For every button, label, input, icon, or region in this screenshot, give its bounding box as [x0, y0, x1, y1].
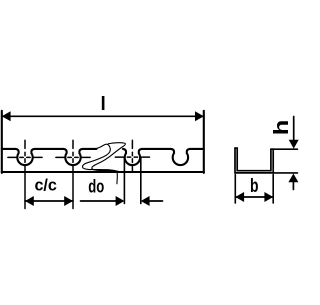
dimension line h lower part — [292, 181, 294, 190]
dimension line do right part — [150, 200, 163, 202]
dimension line do left part — [81, 200, 117, 202]
break line squiggle left stroke — [83, 144, 121, 172]
keyhole slot 3 — [123, 149, 142, 165]
centerline slot 3 horizontal dashes — [115, 156, 149, 158]
svg-text:c/c: c/c — [34, 176, 57, 194]
arrowhead do right (points left) — [141, 196, 150, 206]
label do — [88, 176, 104, 197]
extension line b left — [234, 175, 236, 204]
arrowhead h up — [288, 174, 298, 183]
arrowhead h down — [289, 140, 299, 149]
extension line h top — [271, 148, 298, 150]
label l — [101, 94, 106, 115]
arrowhead do left (points right) — [116, 196, 125, 206]
arrowhead c/c left — [25, 196, 34, 206]
arrowhead c/c right — [64, 196, 73, 206]
svg-text:h: h — [270, 120, 293, 136]
dimension line h upper part — [293, 117, 295, 142]
dimension line c/c — [25, 200, 73, 202]
extension line do right (hole tangent) — [140, 157, 142, 203]
break line squiggle right stroke — [92, 143, 126, 184]
centerline slot 2 horizontal dashes — [56, 156, 90, 158]
label b — [250, 175, 259, 197]
arrowhead b left — [235, 192, 244, 202]
label h (rotated) — [270, 120, 293, 136]
svg-text:b: b — [250, 175, 259, 197]
arrowhead l left — [2, 111, 11, 121]
centerline slot 2 vertical (extends down as c/c extension) — [72, 140, 74, 208]
section view U-channel outline — [235, 148, 273, 173]
dimension line b — [235, 196, 273, 198]
centerline slot 1 vertical (extends down as c/c extension) — [24, 140, 26, 208]
bar left edge / extension line for l — [1, 111, 3, 173]
bar right edge / extension line for l — [203, 111, 205, 173]
arrowhead l right — [195, 111, 204, 121]
centerline slot 1 horizontal dashes — [8, 156, 42, 158]
extension line do left (hole tangent) — [123, 157, 125, 203]
bar top edge segments — [2, 148, 204, 150]
dimension line l — [2, 115, 204, 117]
svg-text:l: l — [101, 94, 106, 115]
svg-text:do: do — [88, 176, 104, 197]
extension line h bottom — [273, 172, 297, 174]
keyhole slot 1 — [16, 149, 35, 165]
centerline slot 3 vertical — [131, 140, 133, 171]
extension line b right — [272, 175, 274, 204]
label c/c — [34, 176, 57, 194]
keyhole slot 4 — [171, 149, 190, 165]
keyhole slot 2 — [64, 149, 83, 165]
bar bottom edge — [2, 171, 204, 173]
arrowhead b right — [264, 192, 273, 202]
